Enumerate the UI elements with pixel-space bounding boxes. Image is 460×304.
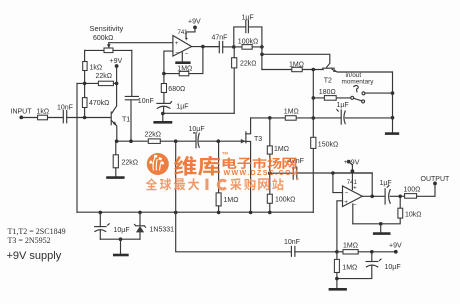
wire U1 output bbox=[192, 46, 219, 48]
node OUTPUT terminal bbox=[433, 182, 437, 186]
svg-text:”: ” bbox=[296, 178, 300, 185]
junction rail bias bbox=[174, 211, 178, 215]
junction C4 bottom bbox=[161, 112, 165, 116]
resistor R3 22kΩ bbox=[98, 81, 113, 85]
svg-text:T3 = 2N5952: T3 = 2N5952 bbox=[8, 236, 51, 245]
wire x392 vertical bbox=[392, 72, 394, 133]
wire T2 collector top bbox=[262, 54, 330, 67]
node +9V U1 bbox=[193, 26, 197, 30]
svg-text:−: − bbox=[345, 190, 349, 197]
junction rail T3 source bbox=[249, 211, 253, 215]
svg-text:100Ω: 100Ω bbox=[404, 187, 421, 194]
capacitor C4 1µF polarized bbox=[157, 102, 170, 104]
wire B down to T2 collector rail bbox=[261, 47, 263, 70]
junction 470k/base bbox=[83, 116, 87, 120]
feedback wire U1 bbox=[164, 47, 203, 74]
node +9V U2 bbox=[347, 160, 351, 164]
watermark char 采 bbox=[230, 178, 241, 190]
switch S1 throw contact bbox=[362, 92, 365, 95]
resistor R21 1MΩ vertical bias bbox=[336, 252, 338, 260]
wire 22k row bbox=[77, 82, 117, 84]
junction rail c10 bbox=[99, 211, 103, 215]
resistor R9 22kΩ vertical bbox=[232, 58, 237, 68]
junction supply/fb cross bbox=[351, 169, 355, 173]
svg-text:T3: T3 bbox=[254, 136, 262, 143]
junction mid right bbox=[312, 116, 316, 120]
wire C11 to bias node bbox=[295, 251, 337, 253]
svg-text:1MΩ: 1MΩ bbox=[343, 243, 358, 250]
wire 47nF2 row bbox=[270, 172, 372, 174]
junction T2 top bbox=[260, 53, 264, 57]
ground G6 bbox=[120, 239, 122, 254]
wire C2 to emitter rail bbox=[130, 101, 132, 141]
resistor R13 150kΩ bbox=[311, 137, 316, 148]
wire input to R1 bbox=[21, 117, 37, 119]
ground G1 bbox=[106, 176, 124, 179]
junction A bbox=[232, 45, 236, 49]
svg-text:680Ω: 680Ω bbox=[168, 86, 185, 93]
node INPUT terminal bbox=[19, 116, 23, 120]
svg-text:10µF: 10µF bbox=[189, 126, 205, 133]
resistor R10 100kΩ bbox=[234, 46, 242, 48]
pot wiper arrow bbox=[108, 43, 110, 46]
wire collector riser bbox=[112, 83, 117, 113]
svg-text:1µF: 1µF bbox=[337, 102, 349, 109]
capacitor C11 10nF bbox=[291, 246, 295, 256]
ground G4 bbox=[385, 132, 399, 135]
svg-text:WWW.DZSC.COM: WWW.DZSC.COM bbox=[224, 170, 300, 177]
wire C9 to 100R bbox=[390, 195, 404, 197]
op-amp U2 741 bbox=[343, 186, 363, 207]
wire zener/cap bottoms bbox=[100, 238, 140, 240]
junction gnd mid bbox=[119, 237, 123, 241]
junction c7 right bbox=[391, 116, 395, 120]
svg-text:1MΩ: 1MΩ bbox=[224, 197, 239, 204]
svg-text:22kΩ: 22kΩ bbox=[240, 61, 257, 68]
ground G5 bbox=[380, 224, 382, 233]
wire U2 output bbox=[362, 195, 384, 197]
junction U1 out bbox=[201, 45, 205, 49]
watermark char 最 bbox=[174, 178, 185, 190]
svg-text:1MΩ: 1MΩ bbox=[274, 146, 289, 153]
resistor R19 1MΩ vertical bbox=[218, 141, 220, 193]
svg-text:T2: T2 bbox=[324, 78, 332, 85]
junction 180 bbox=[312, 96, 316, 100]
svg-text:+: + bbox=[344, 159, 348, 166]
svg-text:22kΩ: 22kΩ bbox=[145, 132, 162, 139]
switch S1 pole bbox=[351, 96, 354, 99]
wire C5 to junction A bbox=[223, 46, 234, 48]
svg-text:10nF: 10nF bbox=[57, 105, 73, 112]
wire 1M row mid bbox=[251, 117, 314, 119]
resistor R15 1MΩ bbox=[267, 146, 272, 154]
resistor R2 470kΩ bbox=[84, 108, 86, 118]
svg-text:+9V: +9V bbox=[110, 58, 123, 65]
momentary actuator hook bbox=[354, 86, 358, 92]
resistor R12 180Ω bbox=[324, 96, 336, 101]
wire T2 base row bbox=[262, 69, 323, 71]
resistor R5 22kΩ emitter bbox=[148, 139, 160, 144]
watermark char 网 bbox=[282, 158, 296, 169]
watermark char 站 bbox=[272, 178, 283, 190]
svg-text:T1,T2 = 2SC1849: T1,T2 = 2SC1849 bbox=[8, 227, 66, 236]
svg-text:1kΩ: 1kΩ bbox=[37, 109, 50, 116]
watermark char 库 bbox=[198, 156, 220, 176]
svg-text:1µF: 1µF bbox=[380, 180, 392, 187]
svg-text:470kΩ: 470kΩ bbox=[89, 100, 109, 107]
wire C4 to gnd junction bbox=[163, 107, 165, 114]
junction n1 bbox=[83, 82, 87, 86]
capacitor C6 1µF loop bbox=[234, 27, 262, 47]
capacitor C3 10µF rail bbox=[195, 133, 197, 148]
junction base/150k bbox=[312, 68, 316, 72]
junction B bbox=[260, 45, 264, 49]
svg-text:10µF: 10µF bbox=[385, 264, 401, 271]
junction emitter bbox=[115, 139, 119, 143]
resistor R20 1MΩ horizontal bbox=[337, 251, 343, 253]
zener D1 1N5331 bbox=[139, 212, 141, 226]
svg-text:TM: TM bbox=[222, 151, 228, 156]
svg-text:+: + bbox=[344, 199, 348, 206]
capacitor C5 47nF bbox=[203, 46, 219, 48]
watermark char I bbox=[205, 179, 208, 190]
switch S1 arm bbox=[354, 98, 362, 101]
svg-text:1MΩ: 1MΩ bbox=[177, 65, 192, 72]
junction out/10k bbox=[398, 195, 402, 199]
resistor R16 100kΩ bbox=[267, 194, 272, 203]
feedback wire U2 bbox=[333, 173, 372, 196]
svg-text:1MΩ: 1MΩ bbox=[284, 109, 299, 116]
svg-text:T1: T1 bbox=[122, 117, 130, 124]
svg-text:1µF: 1µF bbox=[242, 15, 254, 22]
junction U2 out bbox=[370, 195, 374, 199]
emitter rail wire bbox=[117, 140, 242, 142]
svg-text:OUTPUT: OUTPUT bbox=[421, 176, 451, 183]
resistor R8 680Ω bbox=[163, 74, 165, 84]
junction sw right bbox=[391, 91, 395, 95]
wire U1 minus input bbox=[164, 51, 173, 74]
svg-text:−: − bbox=[353, 202, 357, 209]
wire U2 minus input bbox=[333, 173, 343, 193]
wire wiper to op-amp U1 + input bbox=[109, 42, 173, 44]
transistor T2 bbox=[323, 67, 335, 69]
wire left rail down bbox=[76, 83, 78, 212]
svg-text:+9V: +9V bbox=[188, 19, 201, 26]
svg-text:1N5331: 1N5331 bbox=[150, 227, 175, 234]
watermark char C bbox=[218, 180, 226, 189]
watermark char 维 bbox=[174, 156, 196, 176]
transistor T1 bbox=[110, 112, 112, 125]
svg-text:+9V: +9V bbox=[389, 243, 402, 250]
wire switch to x392 bbox=[365, 92, 393, 94]
svg-text:+: + bbox=[175, 40, 179, 47]
capacitor C7 1µF switch bbox=[340, 110, 342, 124]
wire 180 row bbox=[313, 97, 350, 99]
svg-text:1MΩ: 1MΩ bbox=[342, 265, 357, 272]
resistor R6 22kΩ vertical to ground bbox=[115, 141, 117, 155]
wire C7 row bbox=[313, 117, 392, 119]
wire U2 plus input bbox=[337, 201, 343, 252]
wire 22k branch left bbox=[163, 112, 234, 114]
svg-text:+9V supply: +9V supply bbox=[7, 250, 62, 262]
wire R20 to +9V bbox=[358, 251, 396, 253]
resistor R17 100Ω bbox=[405, 194, 417, 199]
junction rail 1M4 bbox=[217, 211, 221, 215]
svg-text:momentary: momentary bbox=[342, 79, 375, 86]
svg-text:10kΩ: 10kΩ bbox=[405, 212, 422, 219]
wire x270 vertical bbox=[269, 118, 271, 212]
resistor R4 1kΩ vertical bbox=[84, 71, 86, 84]
wire bias drop bbox=[176, 141, 292, 252]
capacitor C10 10µF supply bbox=[99, 212, 101, 226]
watermark char 子 bbox=[238, 158, 252, 169]
capacitor C8 47nF bbox=[293, 167, 297, 179]
wire C1 to T1 base bbox=[67, 117, 111, 119]
junction fb2 left bbox=[331, 171, 335, 175]
op-amp U1 741 bbox=[173, 36, 192, 57]
junction n2 bbox=[115, 82, 119, 86]
svg-text:600kΩ: 600kΩ bbox=[93, 35, 113, 42]
junction fb/680 bbox=[162, 72, 166, 76]
junction bias gnd bbox=[335, 277, 339, 281]
wire R1 to C1 bbox=[48, 117, 64, 119]
junction bias node bbox=[335, 250, 339, 254]
wire +9V down to 22k node bbox=[116, 66, 118, 83]
svg-text:10nF: 10nF bbox=[138, 98, 154, 105]
junction mid left bbox=[268, 116, 272, 120]
capacitor C9 1µF output bbox=[384, 189, 386, 204]
svg-text:22kΩ: 22kΩ bbox=[122, 160, 139, 167]
node +9V supply T1 bbox=[115, 64, 119, 68]
U2 V- pin down bbox=[352, 204, 354, 224]
capacitor C1 10nF bbox=[63, 111, 66, 123]
svg-text:150kΩ: 150kΩ bbox=[318, 142, 338, 149]
svg-text:1kΩ: 1kΩ bbox=[90, 65, 103, 72]
node +9V rail terminal bbox=[394, 250, 398, 254]
wire junction A riser bbox=[233, 68, 235, 113]
svg-text:180Ω: 180Ω bbox=[319, 89, 336, 96]
svg-text:−: − bbox=[185, 51, 189, 58]
junction C2 rail bbox=[129, 139, 133, 143]
watermark char 市 bbox=[252, 158, 266, 169]
watermark char 购 bbox=[244, 178, 255, 190]
watermark char 网 bbox=[258, 178, 269, 190]
watermark char 电 bbox=[223, 158, 237, 169]
svg-text:10µF: 10µF bbox=[114, 227, 130, 234]
svg-text:INPUT: INPUT bbox=[11, 109, 33, 116]
resistor R7 1MΩ feedback bbox=[179, 71, 189, 75]
watermark char 场 bbox=[267, 158, 281, 169]
capacitor C2 10nF bbox=[125, 96, 138, 99]
svg-text:1µF: 1µF bbox=[176, 104, 188, 111]
watermark logo circle bbox=[147, 153, 169, 175]
svg-text:100kΩ: 100kΩ bbox=[238, 39, 258, 46]
svg-text:47nF: 47nF bbox=[212, 34, 228, 41]
svg-text:10nF: 10nF bbox=[284, 239, 300, 246]
wire pot right down to C2 bbox=[131, 50, 133, 95]
watermark logo circle bbox=[146, 151, 299, 191]
ground G2 bbox=[175, 61, 190, 64]
junction R gate bbox=[217, 139, 221, 143]
watermark char 球 bbox=[160, 178, 171, 190]
resistor R11 1MΩ base bbox=[292, 67, 302, 71]
resistor R1 1kΩ bbox=[38, 115, 48, 120]
svg-text:+: + bbox=[185, 36, 189, 43]
svg-text:100kΩ: 100kΩ bbox=[275, 197, 295, 204]
wire +9V to U1 V+ pin bbox=[186, 27, 195, 38]
wire x313 vertical bbox=[312, 70, 314, 213]
svg-text:Sensitivity: Sensitivity bbox=[90, 24, 124, 33]
svg-text:22kΩ: 22kΩ bbox=[96, 73, 113, 80]
resistor R18 10kΩ bbox=[399, 196, 401, 208]
transistor T3 JFET bbox=[245, 132, 247, 143]
bottom rail bbox=[77, 211, 313, 213]
watermark char 全 bbox=[146, 178, 157, 190]
U1 V- pin to ground bbox=[181, 52, 183, 62]
junction rail 100k bbox=[268, 211, 272, 215]
svg-text:1MΩ: 1MΩ bbox=[289, 61, 304, 68]
junction gnd out bbox=[379, 222, 383, 226]
svg-text:−: − bbox=[175, 49, 179, 56]
junction c12 top bbox=[370, 250, 374, 254]
svg-text:+: + bbox=[353, 185, 357, 192]
junction rail zener bbox=[138, 211, 142, 215]
capacitor C12 10µF bias bbox=[371, 252, 373, 262]
wire 100R to OUTPUT bbox=[417, 183, 435, 196]
ground G7 bbox=[329, 288, 347, 291]
watermark char 大 bbox=[188, 178, 199, 190]
junction bias tap bbox=[174, 139, 178, 143]
resistor R14 1MΩ mid bbox=[285, 116, 296, 121]
ground G3 bbox=[162, 114, 164, 122]
wire +9V U2 down bbox=[349, 162, 353, 190]
junction 47n left bbox=[268, 171, 272, 175]
